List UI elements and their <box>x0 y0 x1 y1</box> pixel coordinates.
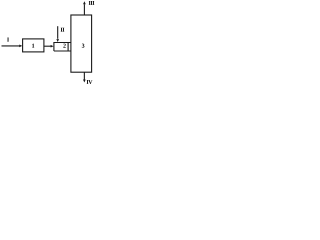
wire input II <box>57 26 59 39</box>
svg-text:3: 3 <box>82 44 85 50</box>
arrowhead III <box>83 1 86 4</box>
svg-text:1: 1 <box>32 44 35 50</box>
arrowhead IV <box>83 80 86 83</box>
wire input I <box>2 45 20 47</box>
block 1 <box>23 39 44 52</box>
arrowhead II <box>56 39 59 42</box>
wire output IV <box>83 72 85 79</box>
wire 1 to 2 <box>44 45 51 47</box>
svg-text:2: 2 <box>63 44 66 50</box>
arrowhead I <box>19 45 22 48</box>
wire output III <box>83 4 85 15</box>
background <box>0 0 100 88</box>
block 3 <box>71 15 92 72</box>
block 2 <box>54 43 71 52</box>
arrowhead 1-to-2 <box>51 45 54 48</box>
